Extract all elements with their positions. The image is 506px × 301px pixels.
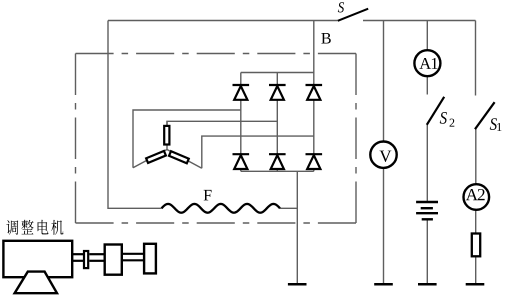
label S — [338, 2, 344, 12]
resistor R load — [472, 234, 480, 257]
wire drop to S1 — [475, 21, 477, 96]
wire A2 to resistor — [475, 210, 477, 234]
wire resistor to ground — [475, 256, 477, 283]
wire phase V to bridge — [167, 121, 277, 125]
wire bridge top rail — [241, 72, 314, 74]
wire bridge neutral to ground — [296, 171, 298, 283]
motor shaft segment 1 — [72, 254, 83, 261]
diode VD3 (top row) — [306, 85, 323, 100]
label F — [204, 190, 212, 200]
wire bridge bottom rail — [241, 170, 314, 172]
wire S2 to battery — [426, 125, 428, 201]
stator winding U (top) — [164, 126, 169, 145]
field winding F coil — [162, 204, 281, 213]
label S1 — [490, 118, 497, 130]
wire top-right rail — [363, 20, 476, 22]
wire top-left B+ rail — [108, 20, 338, 22]
switch S blade — [338, 9, 368, 21]
label A2 — [466, 189, 485, 200]
ground 1 — [288, 283, 307, 286]
coupling flange middle — [105, 245, 122, 275]
motor base trapezoid — [15, 272, 57, 294]
ground 3 — [418, 283, 437, 286]
wire battery to ground — [426, 220, 428, 283]
wire phase W to bridge — [202, 136, 314, 168]
wire bridge column 2 — [276, 73, 278, 172]
voltmeter V circle — [370, 142, 396, 168]
wire voltmeter to ground — [383, 168, 385, 283]
label S2 — [440, 112, 447, 124]
wire bridge column 3 — [313, 73, 315, 172]
motor shaft segment 2 — [89, 254, 103, 261]
ground 2 — [374, 283, 393, 286]
label 调整电机 (drive motor) — [6, 220, 63, 235]
wire drop to voltmeter — [383, 21, 385, 142]
wire field coil to neutral — [280, 207, 297, 209]
stator winding V (lower-left) — [146, 151, 166, 163]
wire phase U to bridge — [133, 110, 241, 168]
ground 4 — [466, 283, 485, 286]
wire outer loop: left edge down to field winding — [108, 21, 162, 209]
diode VD2 (top row) — [269, 85, 286, 100]
label A1 — [419, 58, 437, 69]
diode VD6 (bottom row) — [306, 154, 323, 169]
label V — [379, 151, 391, 162]
diode VD1 (top row) — [233, 85, 250, 100]
ammeter A2 circle — [464, 184, 490, 210]
label S1 subscript 1 — [497, 123, 501, 131]
coupling flange right — [144, 244, 156, 274]
diode VD5 (bottom row) — [269, 154, 286, 169]
ammeter A1 circle — [414, 50, 440, 76]
wire drop to A1 — [426, 21, 428, 50]
wire A1 to S2 — [426, 77, 428, 95]
motor body — [3, 241, 72, 277]
label B — [321, 33, 330, 44]
coupling flange small — [84, 251, 88, 268]
diode VD4 (bottom row) — [233, 154, 250, 169]
wire bridge column 1 — [240, 73, 242, 172]
stator winding W (lower-right) — [169, 151, 189, 163]
switch S2 blade — [427, 97, 444, 125]
wire B+ drop to bridge — [313, 21, 315, 73]
wire S1 to A2 — [475, 129, 477, 184]
alternator housing (dash-dot box) — [76, 54, 357, 224]
switch S1 blade — [475, 102, 495, 129]
battery GB — [416, 202, 438, 219]
motor shaft segment 3 — [123, 254, 143, 260]
label S2 subscript 2 — [450, 119, 455, 127]
stator Y-winding arms — [133, 121, 202, 168]
